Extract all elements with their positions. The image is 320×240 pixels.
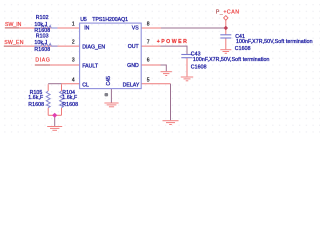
- svg-text:C45: C45: [106, 76, 112, 86]
- svg-text:3: 3: [72, 58, 75, 64]
- svg-text:R1608: R1608: [34, 47, 50, 53]
- svg-text:R1608: R1608: [62, 102, 78, 108]
- svg-text:2: 2: [72, 40, 75, 46]
- svg-text:FAULT: FAULT: [82, 63, 99, 69]
- svg-text:8: 8: [147, 22, 150, 28]
- svg-text:C1608: C1608: [191, 65, 207, 71]
- svg-text:100nF,X7R,50V,Soft termination: 100nF,X7R,50V,Soft termination: [236, 39, 313, 45]
- svg-text:SW_IN: SW_IN: [5, 22, 22, 28]
- svg-text:R102: R102: [36, 15, 49, 21]
- svg-text:10k,J: 10k,J: [34, 22, 47, 28]
- svg-text:1.6k,F: 1.6k,F: [28, 95, 43, 101]
- svg-text:4: 4: [72, 77, 75, 83]
- svg-text:DIAG_EN: DIAG_EN: [82, 45, 105, 51]
- svg-text:1: 1: [72, 22, 75, 28]
- svg-text:OUT: OUT: [128, 44, 140, 50]
- svg-text:U5: U5: [80, 17, 87, 23]
- svg-text:C1608: C1608: [235, 46, 251, 52]
- svg-text:R1608: R1608: [28, 102, 44, 108]
- svg-text:7: 7: [147, 40, 150, 46]
- svg-text:R103: R103: [36, 34, 49, 40]
- svg-text:DIAG: DIAG: [35, 58, 50, 64]
- svg-text:10k,J: 10k,J: [34, 40, 47, 46]
- svg-text:5: 5: [147, 77, 150, 83]
- svg-text:GND: GND: [127, 63, 139, 69]
- svg-text:+POWER: +POWER: [157, 39, 189, 45]
- svg-text:P_+CAN: P_+CAN: [216, 9, 240, 15]
- svg-text:100nF,X7R,50V,Soft termination: 100nF,X7R,50V,Soft termination: [193, 57, 270, 63]
- svg-text:DELAY: DELAY: [123, 82, 140, 88]
- svg-text:TPS1H200AQ1: TPS1H200AQ1: [92, 17, 128, 23]
- svg-text:1.6k,F: 1.6k,F: [62, 95, 77, 101]
- svg-text:SW_EN: SW_EN: [4, 40, 24, 46]
- svg-text:IN: IN: [84, 26, 89, 32]
- svg-text:CL: CL: [82, 82, 89, 88]
- svg-text:VS: VS: [132, 25, 139, 31]
- svg-text:6: 6: [147, 58, 150, 64]
